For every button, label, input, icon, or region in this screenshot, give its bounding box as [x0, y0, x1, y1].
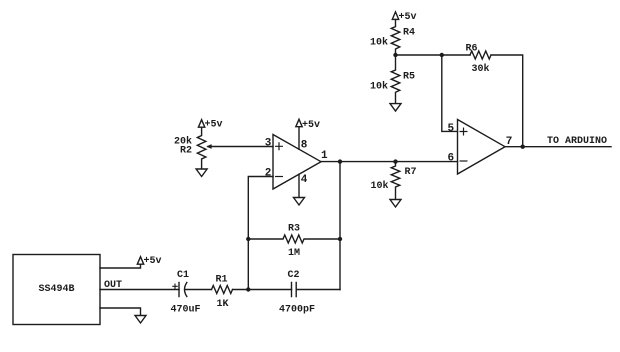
svg-text:R1: R1 — [216, 275, 228, 286]
wire: pin 5 from divider — [442, 55, 458, 131]
resistor R1 1K — [212, 286, 233, 294]
junction node (R3 right) — [338, 237, 342, 241]
potentiometer R2 20k: +5v symbol — [198, 120, 204, 128]
svg-text:10k: 10k — [370, 81, 388, 93]
junction node (pin5 tap) — [440, 53, 444, 57]
+5v supply symbol (SS494B) — [137, 257, 143, 265]
resistor R3 1M with wires — [248, 235, 340, 243]
svg-text:TO ARDUINO: TO ARDUINO — [547, 136, 607, 147]
wire: SS494B OUT pin to C1 — [100, 289, 179, 291]
wire: divider node to R6 and down corner — [396, 54, 471, 56]
resistor R5 10k — [391, 55, 400, 104]
wire: C1 to R1 — [185, 289, 211, 291]
svg-text:C2: C2 — [288, 270, 300, 281]
svg-text:+5v: +5v — [302, 120, 320, 131]
svg-text:+5v: +5v — [205, 120, 223, 131]
minus sign (U2 pin6) — [460, 160, 467, 162]
capacitor C2 4700pF — [292, 283, 297, 297]
svg-text:470uF: 470uF — [171, 305, 201, 316]
resistor R4 10k — [391, 19, 400, 55]
wire: pin 8 — [298, 127, 300, 150]
svg-text:+5v: +5v — [399, 12, 417, 23]
capacitor C1 470uF (polarized) — [178, 283, 180, 297]
svg-text:R2: R2 — [180, 146, 192, 157]
svg-text:+5v: +5v — [144, 256, 162, 267]
junction node (R4/R5 divider) — [393, 53, 397, 57]
svg-text:4: 4 — [301, 174, 308, 186]
svg-text:6: 6 — [448, 153, 455, 165]
resistor R7 10k — [391, 162, 400, 200]
svg-text:30k: 30k — [472, 63, 490, 75]
wire: SS494B Vcc pin to +5v — [100, 264, 141, 268]
plus sign (U2 pin5) — [460, 128, 467, 135]
junction node (R1/C2/R3 leg) — [246, 287, 250, 291]
svg-text:10k: 10k — [370, 37, 388, 49]
plus sign (U1 pin3) — [276, 143, 283, 150]
svg-text:R4: R4 — [403, 28, 415, 39]
svg-text:1K: 1K — [217, 299, 229, 310]
svg-text:10k: 10k — [371, 180, 389, 192]
svg-text:R5: R5 — [403, 72, 415, 83]
wire: U2 output TO ARDUINO — [505, 146, 611, 148]
svg-text:3: 3 — [265, 138, 272, 150]
op-amp U1B triangle — [458, 120, 506, 175]
svg-text:8: 8 — [301, 140, 308, 152]
minus sign (U1 pin2) — [276, 176, 283, 178]
ground (R7) — [390, 200, 401, 208]
svg-text:5: 5 — [448, 123, 455, 135]
potentiometer R2 body — [197, 127, 206, 169]
junction node (R6 feedback at output) — [521, 145, 525, 149]
wiper arrowhead — [206, 144, 211, 149]
junction node (feedback tap) — [338, 159, 342, 163]
svg-text:7: 7 — [506, 136, 513, 148]
wire: U1 output to U2 pin 6 — [321, 161, 458, 163]
svg-text:1: 1 — [321, 150, 328, 162]
wire: SS494B GND pin — [100, 308, 141, 316]
junction node (R7 tap) — [393, 159, 397, 163]
ground (R2) — [196, 169, 207, 177]
svg-text:4700pF: 4700pF — [279, 305, 315, 316]
svg-text:OUT: OUT — [104, 280, 122, 291]
ground (U1 pin 4) — [294, 198, 305, 206]
ground (R5) — [390, 104, 401, 112]
wire: left feedback vertical (pin2 to bottom row) — [248, 177, 273, 290]
resistor R6 30k — [470, 51, 491, 59]
junction node (R3 left) — [246, 237, 250, 241]
ground (SS494B) — [135, 316, 146, 324]
wire: R1 to C2 through node — [233, 289, 292, 291]
op-amp U1A triangle — [273, 135, 321, 190]
svg-text:SS494B: SS494B — [39, 284, 75, 295]
svg-text:R3: R3 — [288, 224, 300, 235]
SS494B sensor box U2 — [13, 255, 100, 325]
+5v supply symbol (U1 pin 8) — [296, 119, 302, 126]
svg-text:R7: R7 — [405, 167, 417, 178]
svg-text:R6: R6 — [466, 44, 478, 55]
svg-text:C1: C1 — [177, 270, 189, 281]
wire: pin 4 — [298, 174, 300, 197]
+5v supply symbol (R4 top) — [392, 12, 398, 20]
svg-text:2: 2 — [265, 168, 272, 180]
wire: right feedback vertical (output to bottom row) — [339, 162, 341, 290]
wire: C2 right to feedback vertical — [296, 289, 340, 291]
wire: R6 to output corner — [491, 55, 523, 147]
svg-text:1M: 1M — [288, 248, 300, 259]
wire: R2 wiper to op-amp pin 3 — [208, 146, 273, 148]
